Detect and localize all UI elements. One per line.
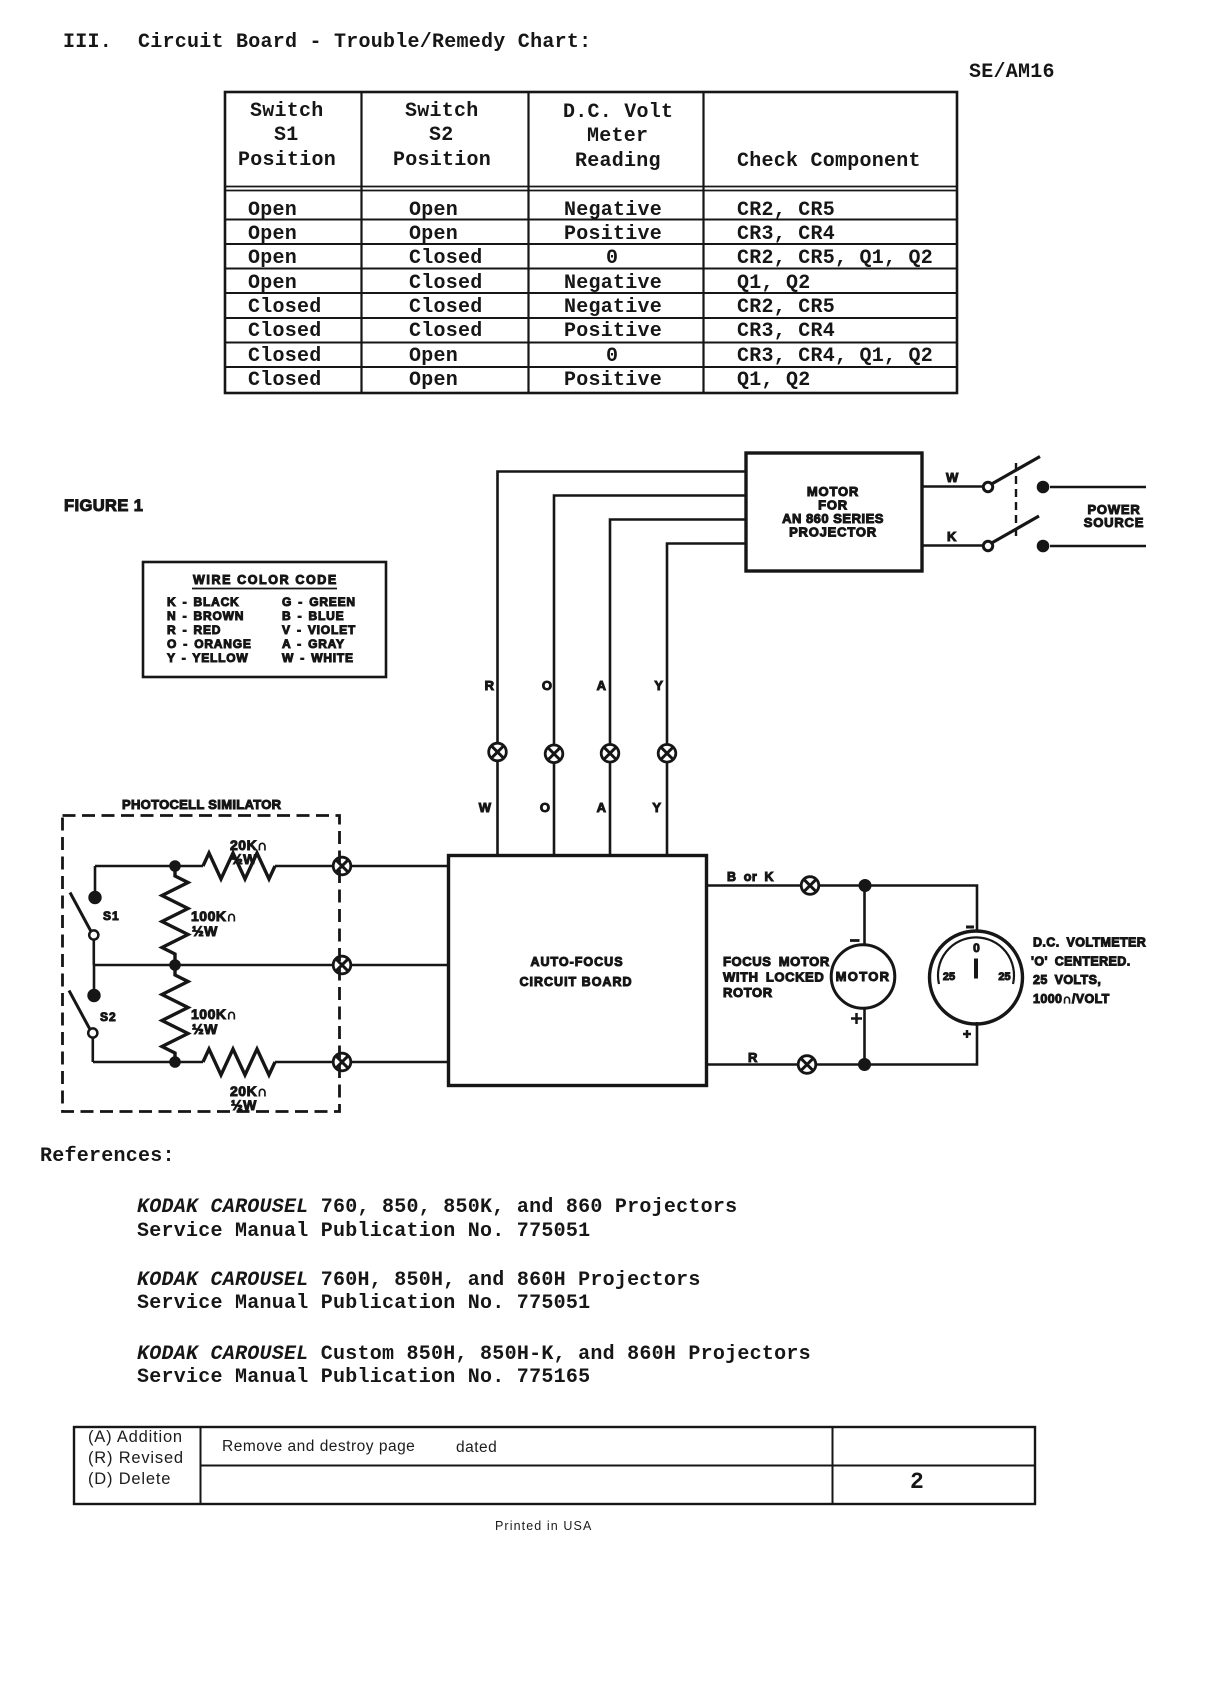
printed in usa (495, 1518, 592, 1535)
revision box legend (88, 1429, 183, 1446)
wire K to power source (1050, 545, 1146, 548)
table row 4 (248, 272, 297, 295)
wire color code right column (282, 595, 356, 665)
label 100K half W lower (191, 1006, 237, 1037)
photocell simulator enclosure (dashed) (63, 816, 340, 1112)
svg-text:G - GREEN: G - GREEN (282, 595, 356, 609)
switch S1 contact (89, 930, 98, 939)
power terminal K (1037, 540, 1049, 552)
svg-text:100K∩: 100K∩ (191, 908, 237, 924)
svg-text:A: A (597, 800, 607, 815)
node middle (170, 960, 181, 971)
svg-text:PHOTOCELL SIMILATOR: PHOTOCELL SIMILATOR (122, 797, 282, 812)
motor block label (782, 484, 884, 540)
junction bottom (859, 1059, 871, 1071)
svg-text:V - VIOLET: V - VIOLET (282, 623, 356, 637)
focus motor label (836, 969, 891, 984)
voltmeter 0 label (973, 941, 980, 955)
wire bottom row left (93, 1061, 203, 1064)
label S1 (103, 909, 120, 923)
revision table middle rule (200, 1465, 1036, 1467)
svg-text:1000∩/VOLT: 1000∩/VOLT (1033, 992, 1110, 1006)
wire K motor to switch (922, 544, 983, 547)
svg-text:'O' CENTERED.: 'O' CENTERED. (1031, 955, 1131, 969)
reference 3 (137, 1343, 811, 1366)
wire R from circuit board (707, 1063, 798, 1066)
switch blade K (993, 516, 1040, 543)
label 100K half W upper (191, 908, 237, 939)
svg-text:AUTO-FOCUS: AUTO-FOCUS (530, 955, 623, 969)
wire S1 to middle row (93, 940, 96, 965)
voltmeter inner scale arc (938, 937, 1014, 984)
svg-text:MOTOR: MOTOR (836, 969, 891, 984)
reference 1 (137, 1196, 737, 1219)
table header col3 (563, 101, 673, 124)
connector bottom (333, 1053, 351, 1071)
voltmeter (930, 931, 1023, 1024)
wire W to power source (1050, 486, 1146, 489)
switch S1 blade (70, 893, 91, 931)
voltmeter needle (974, 959, 978, 979)
wire W motor to switch (922, 485, 983, 488)
wire color code left column (167, 595, 252, 665)
switch contact W (983, 482, 992, 491)
label B or K (727, 870, 774, 884)
figure 1 caption (64, 497, 143, 515)
label focus motor with locked rotor (723, 954, 830, 1000)
doc code SE/AM16 (969, 61, 1055, 84)
table row 5 (248, 296, 322, 319)
connector R (798, 1056, 816, 1074)
table row 7 (248, 345, 322, 368)
svg-text:Y: Y (654, 678, 663, 693)
wire W to circuit board (496, 761, 499, 855)
svg-text:A - GRAY: A - GRAY (282, 637, 345, 651)
wire S2 to bottom row (92, 1038, 95, 1062)
wire O from motor (554, 496, 746, 746)
reference 2 (137, 1269, 701, 1292)
table header col4 (737, 150, 921, 173)
svg-text:K - BLACK: K - BLACK (167, 595, 240, 609)
wire Y to circuit board (666, 762, 669, 855)
svg-text:O - ORANGE: O - ORANGE (167, 637, 252, 651)
wire middle row (94, 964, 333, 967)
svg-text:R - RED: R - RED (167, 623, 221, 637)
svg-text:R: R (485, 678, 495, 693)
node bottom (170, 1057, 181, 1068)
wire top to circuit board (351, 865, 448, 868)
svg-text:SOURCE: SOURCE (1084, 515, 1144, 530)
revision table frame (74, 1427, 1035, 1504)
table header col1 (250, 100, 324, 123)
svg-text:FIGURE 1: FIGURE 1 (64, 497, 143, 515)
wire to S1 (94, 866, 97, 892)
label 20K half W top (230, 837, 268, 867)
table column rule 2 (527, 91, 529, 393)
svg-text:25: 25 (943, 971, 955, 983)
connector top (333, 857, 351, 875)
svg-text:100K∩: 100K∩ (191, 1006, 237, 1022)
svg-text:W - WHITE: W - WHITE (282, 651, 354, 665)
revision table legend rule (200, 1426, 202, 1504)
connector R/W (489, 743, 507, 761)
label power source (1084, 502, 1144, 530)
svg-text:R: R (748, 1050, 758, 1065)
svg-text:½W: ½W (192, 1021, 218, 1037)
table row 2 (248, 223, 297, 246)
table row rules (225, 220, 957, 368)
table row 8 (248, 369, 322, 392)
svg-text:WITH LOCKED: WITH LOCKED (723, 970, 824, 985)
wire top row right (275, 865, 333, 868)
svg-text:Y: Y (652, 800, 661, 815)
label R (485, 678, 495, 693)
svg-text:½W: ½W (231, 1097, 257, 1113)
wire color code box (143, 562, 386, 677)
revision box instruction (222, 1438, 415, 1455)
resistor 100K lower (162, 965, 188, 1064)
wire color code title (192, 573, 338, 589)
auto focus circuit board (449, 856, 707, 1086)
table header col2 (405, 100, 479, 123)
motor block for 860 series projector (746, 453, 922, 571)
wire bottom to circuit board (351, 1061, 448, 1064)
trouble/remedy table frame (225, 92, 957, 393)
svg-text:A: A (597, 678, 607, 693)
connector Y (658, 745, 676, 763)
photocell simulator label (122, 797, 282, 812)
switch S1 terminal (89, 891, 101, 903)
connector middle (333, 956, 351, 974)
label K (947, 529, 957, 544)
revision table right rule (832, 1426, 834, 1504)
svg-text:S2: S2 (100, 1010, 117, 1024)
wire Y from motor (667, 544, 746, 745)
wire to S2 (93, 965, 96, 990)
table column rule 3 (702, 91, 704, 393)
svg-text:D.C. VOLTMETER: D.C. VOLTMETER (1033, 936, 1146, 950)
svg-text:S1: S1 (103, 909, 120, 923)
switch blade W (993, 457, 1041, 484)
switch mechanical link (dashed) (1015, 463, 1017, 540)
svg-text:W: W (946, 470, 959, 485)
table row 3 (248, 247, 297, 270)
label A (597, 678, 607, 693)
svg-text:½W: ½W (231, 851, 257, 867)
voltmeter minus mark (966, 926, 974, 929)
svg-text:K: K (947, 529, 957, 544)
svg-text:ROTOR: ROTOR (723, 985, 773, 1000)
label W (479, 800, 492, 815)
wire junction to motor (863, 886, 866, 945)
wire motor to bottom row (863, 1009, 866, 1065)
svg-text:PROJECTOR: PROJECTOR (789, 525, 877, 540)
table column rule 1 (360, 91, 362, 393)
svg-text:½W: ½W (192, 923, 218, 939)
svg-text:0: 0 (973, 941, 980, 955)
svg-text:CIRCUIT BOARD: CIRCUIT BOARD (520, 975, 633, 989)
heading (63, 31, 112, 54)
svg-text:Y - YELLOW: Y - YELLOW (167, 651, 249, 665)
wire O to circuit board (553, 763, 556, 855)
motor plus mark (851, 1013, 862, 1024)
svg-text:B or K: B or K (727, 870, 774, 884)
references heading (40, 1145, 175, 1168)
switch contact K (983, 541, 992, 550)
label W (946, 470, 959, 485)
switch S2 terminal (88, 989, 100, 1001)
voltmeter plus mark (963, 1030, 971, 1038)
resistor 20K top (203, 853, 275, 879)
svg-text:N - BROWN: N - BROWN (167, 609, 244, 623)
voltmeter 25 left (943, 971, 955, 983)
wire B or K from circuit board (707, 884, 801, 887)
node top (170, 861, 181, 872)
svg-text:25: 25 (998, 971, 1010, 983)
wire A from motor (610, 520, 746, 745)
connector B or K (801, 877, 819, 895)
label DC voltmeter (1031, 936, 1146, 1007)
label 20K half W bottom (230, 1083, 268, 1113)
wire B or K to voltmeter branch (819, 886, 977, 932)
junction top (859, 880, 871, 892)
resistor 20K bottom (203, 1049, 275, 1075)
wire R to voltmeter branch (816, 1022, 977, 1065)
svg-text:O: O (540, 800, 550, 815)
auto focus circuit board label (520, 955, 633, 989)
wire middle to circuit board (351, 964, 448, 967)
wire A to circuit board (609, 762, 612, 855)
table row 1 (248, 199, 297, 222)
wire R from motor (498, 472, 747, 744)
label O (542, 678, 552, 693)
table row 6 (248, 320, 322, 343)
table header double rule (225, 187, 957, 191)
label R (748, 1050, 758, 1065)
connector O (545, 745, 563, 763)
voltmeter 25 right (998, 971, 1010, 983)
svg-text:FOCUS MOTOR: FOCUS MOTOR (723, 954, 830, 969)
wire bottom row right (275, 1061, 333, 1064)
label S2 (100, 1010, 117, 1024)
focus motor (831, 945, 895, 1009)
switch S2 blade (69, 991, 90, 1029)
motor minus mark (850, 939, 860, 942)
page number 2 (910, 1471, 924, 1494)
label O (540, 800, 550, 815)
label Y (652, 800, 661, 815)
svg-text:25 VOLTS,: 25 VOLTS, (1033, 973, 1101, 987)
resistor 100K upper (162, 866, 188, 965)
connector A (601, 745, 619, 763)
power terminal W (1037, 481, 1049, 493)
svg-text:B - BLUE: B - BLUE (282, 609, 344, 623)
label A (597, 800, 607, 815)
svg-text:W: W (479, 800, 492, 815)
wire top row left (95, 865, 203, 868)
svg-text:WIRE COLOR CODE: WIRE COLOR CODE (193, 573, 338, 587)
svg-text:O: O (542, 678, 552, 693)
label Y (654, 678, 663, 693)
switch S2 contact (88, 1028, 97, 1037)
